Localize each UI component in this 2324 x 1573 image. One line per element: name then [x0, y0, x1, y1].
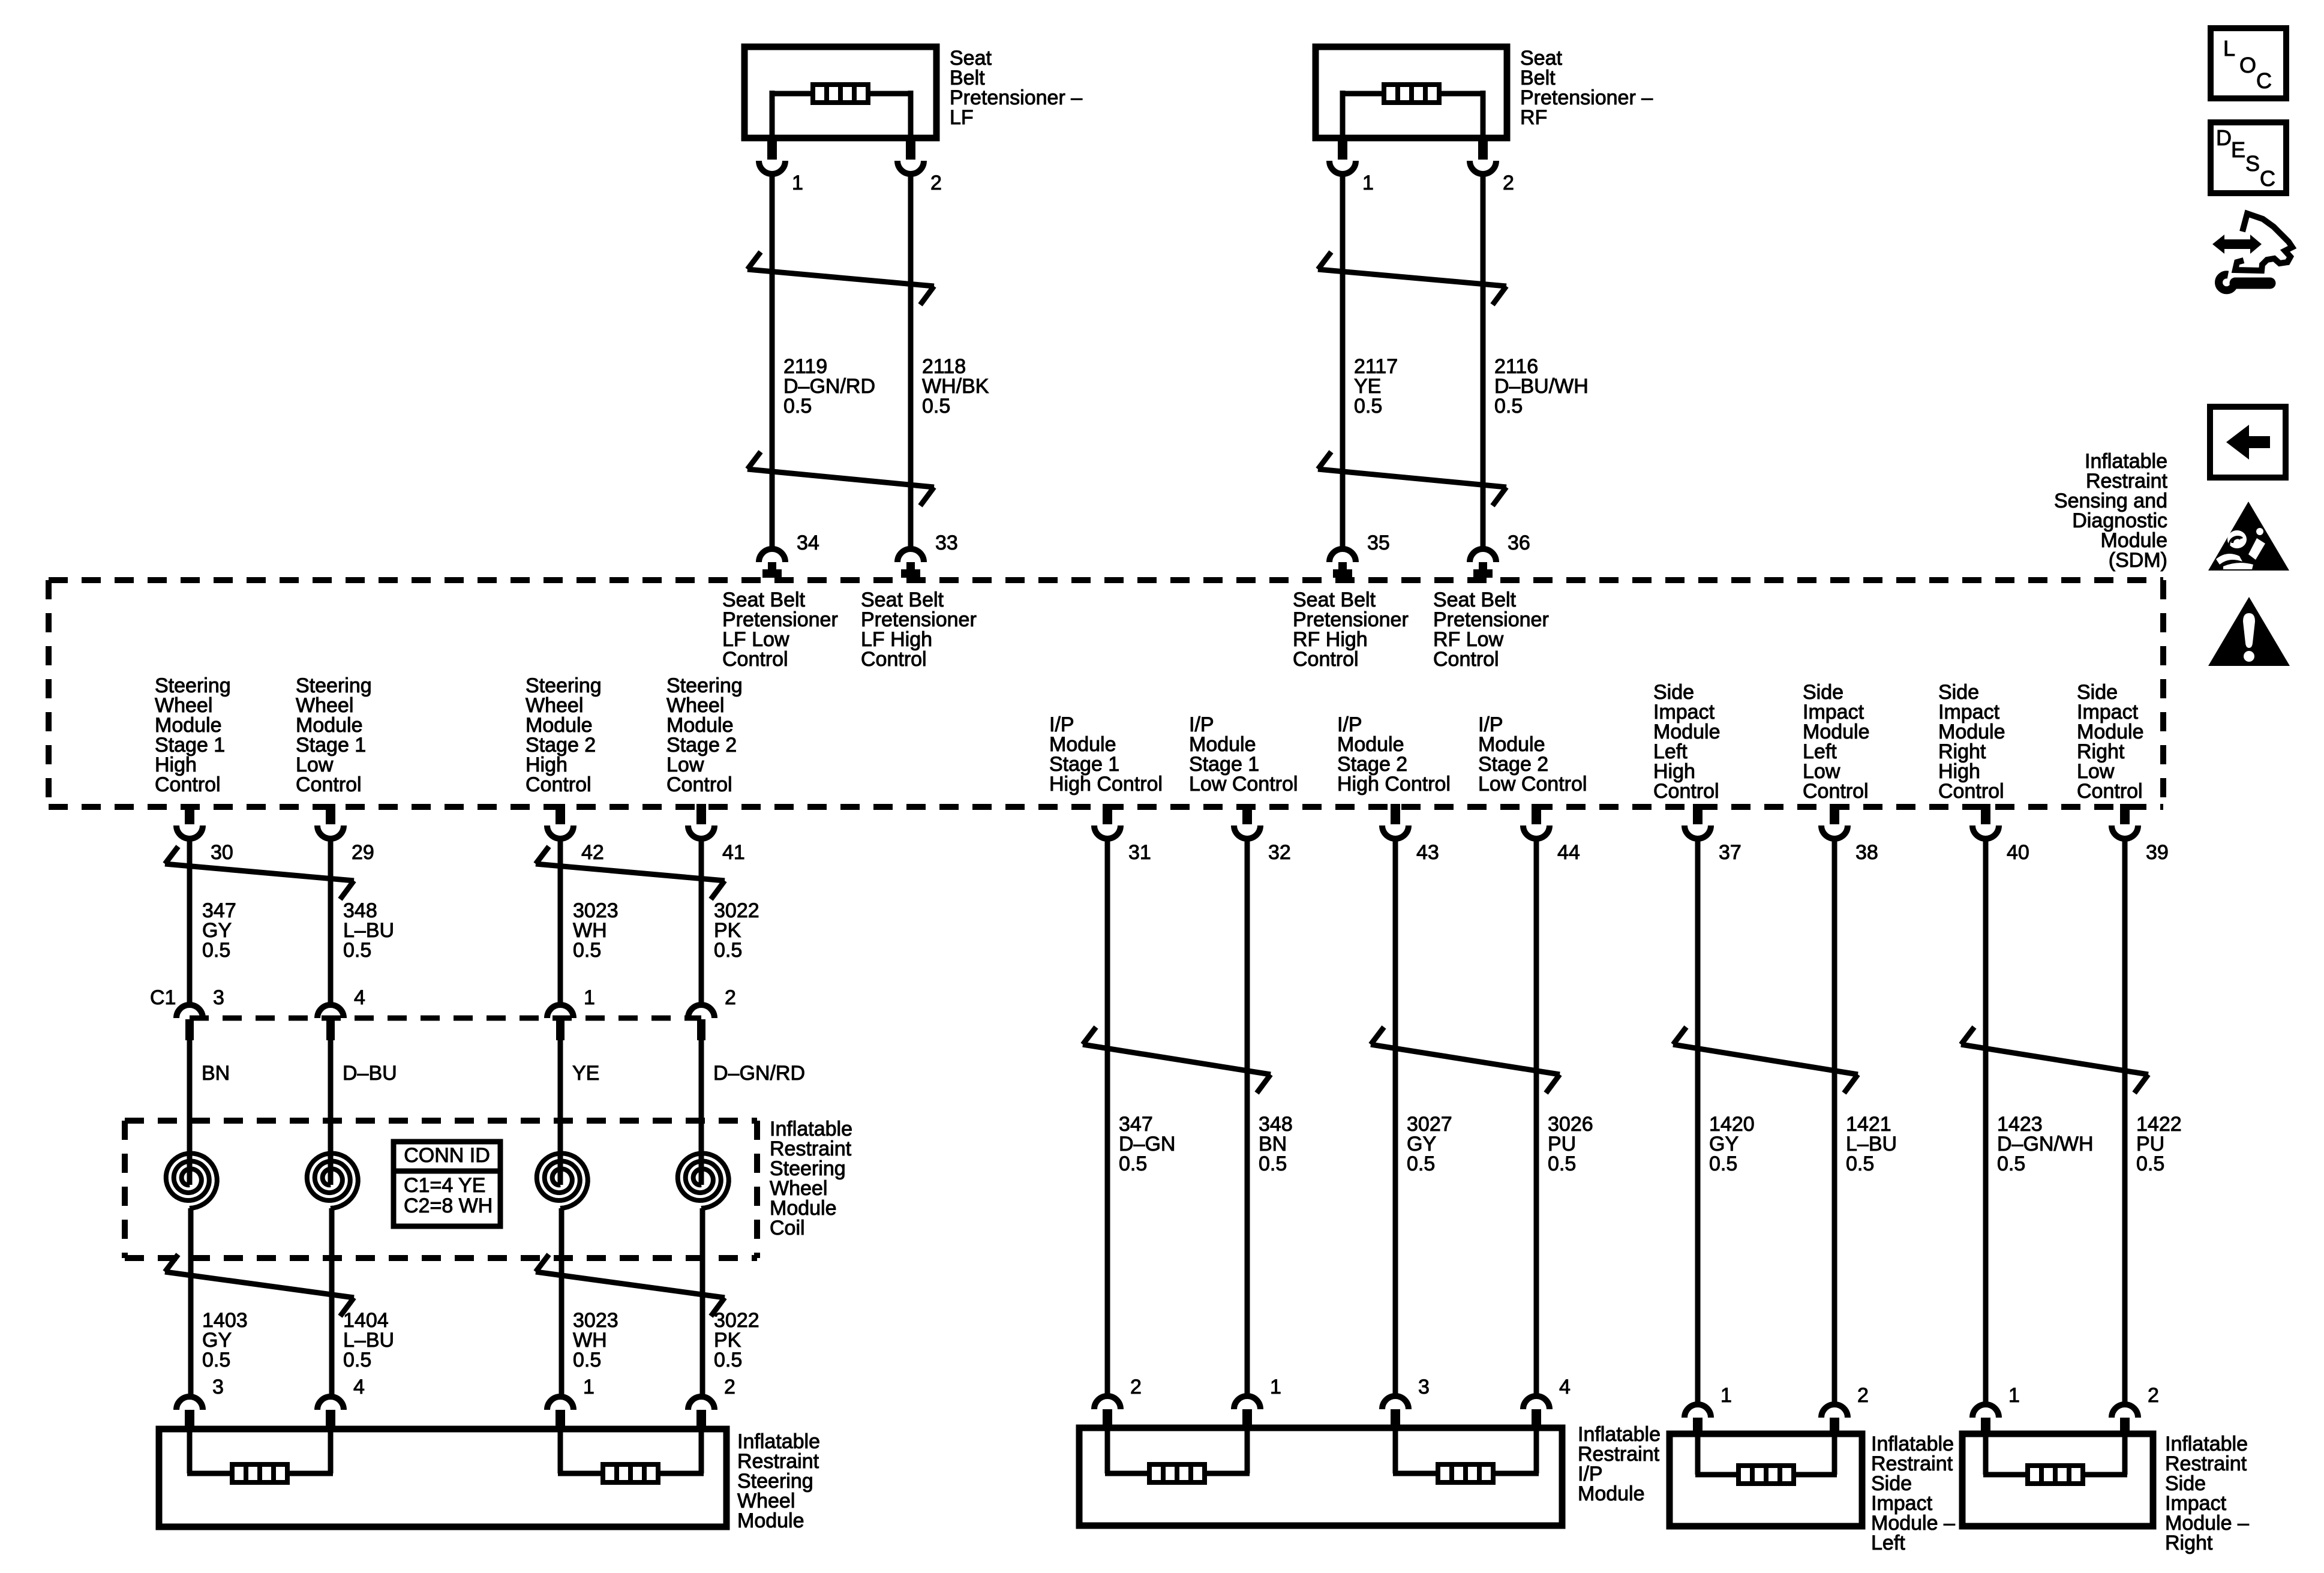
SDM pin 43 connector arc	[1382, 825, 1409, 839]
svg-text:4: 4	[1559, 1376, 1571, 1398]
svg-text:4: 4	[354, 986, 365, 1009]
SDM pin 32 connector arc	[1234, 825, 1260, 839]
I/P module pin 3 stub	[1391, 1409, 1400, 1428]
SDM pin number 44	[1557, 841, 1580, 864]
coil connector C1 pin number 3	[213, 986, 224, 1009]
wire: squib lead left (pretensioner LF)	[772, 91, 814, 138]
coil connector C1 pin number 4	[354, 986, 365, 1009]
SWM pin number 4	[353, 1376, 365, 1398]
I/P module pin 2 stub	[1103, 1409, 1112, 1428]
wire 2119 D-GN/RD	[770, 174, 775, 547]
SDM pin number 33	[935, 532, 958, 554]
Side Impact Right pin 1 stub	[1981, 1418, 1990, 1434]
wire: SWM squib2 leads	[558, 1429, 704, 1473]
svg-text:Control: Control	[666, 773, 732, 796]
svg-text:0.5: 0.5	[714, 1349, 742, 1371]
component box: Inflatable Restraint Side Impact Module - Left	[1670, 1434, 1862, 1526]
SDM net label: Seat Belt Pretensioner RF Low Control	[1433, 589, 1549, 671]
wire label D-GN/RD	[713, 1062, 805, 1085]
svg-text:0.5: 0.5	[573, 1349, 601, 1371]
icon: LOC box	[2211, 28, 2286, 98]
SDM pin 35 stub	[1333, 562, 1352, 578]
wire 2118 WH/BK	[908, 174, 914, 547]
coil connector C1 pin 2 stub	[697, 1019, 705, 1040]
wire label BN	[202, 1062, 230, 1085]
wire: I/P squib2 leads	[1393, 1428, 1539, 1473]
I/P module pin number 4	[1559, 1376, 1571, 1398]
connector arc pin 1 (pretensioner LF)	[759, 161, 785, 174]
wire 3023 WH (coil to SWM)	[559, 1258, 565, 1398]
Side Impact Right pin number 2	[2148, 1384, 2159, 1407]
I/P module pin 4 stub	[1532, 1409, 1541, 1428]
label: Seat Belt Pretensioner - RF	[1520, 47, 1653, 129]
svg-text:YE: YE	[572, 1062, 599, 1085]
wire 3026 PU (pin 44 to I/P)	[1534, 839, 1539, 1396]
wire: squib lead left (pretensioner RF)	[1343, 91, 1385, 138]
SDM pin 30 connector arc	[176, 825, 203, 839]
SDM net label: I/P Module Stage 2 Low Control	[1478, 713, 1587, 795]
harness crossing (wires 2119/2118 lower)	[747, 452, 934, 506]
I/P module pin 2 connector arc	[1094, 1396, 1121, 1409]
SDM net label: Side Impact Module Left High Control	[1653, 681, 1721, 803]
svg-text:C1: C1	[150, 986, 176, 1009]
svg-text:0.5: 0.5	[714, 939, 742, 962]
CONN ID table box	[394, 1142, 500, 1226]
coil connector C1 pin 4 arc	[317, 1005, 344, 1018]
wire: squib lead right (pretensioner RF)	[1439, 91, 1483, 138]
label: Inflatable Restraint Sensing and Diagnostic Module (SDM)	[2054, 450, 2168, 572]
svg-text:0.5: 0.5	[1997, 1152, 2025, 1175]
SDM pin 33 connector arc	[897, 549, 924, 562]
SDM pin 36 stub	[1473, 562, 1493, 578]
I/P module pin number 2	[1130, 1376, 1142, 1398]
svg-text:37: 37	[1719, 841, 1742, 864]
svg-text:L: L	[2223, 36, 2235, 61]
svg-text:0.5: 0.5	[783, 395, 812, 418]
SDM pin 43 stub	[1391, 804, 1400, 824]
coil connector C1 pin 2 arc	[688, 1005, 714, 1018]
svg-text:S: S	[2245, 151, 2260, 176]
component box: Seat Belt Pretensioner - LF	[744, 47, 936, 138]
SWM pin number 2	[724, 1376, 735, 1398]
svg-text:Control: Control	[526, 773, 591, 796]
I/P module pin 4 connector arc	[1523, 1396, 1550, 1409]
squib 2 (Steering Wheel Module)	[603, 1464, 658, 1482]
wire label 1403 GY 0.5	[202, 1309, 248, 1371]
wire label 3026 PU 0.5	[1548, 1113, 1593, 1175]
I/P module pin 1 stub	[1242, 1409, 1252, 1428]
svg-text:3: 3	[1418, 1376, 1430, 1398]
CONN ID header text	[404, 1144, 490, 1167]
SWM pin number 1	[583, 1376, 594, 1398]
wire label 2117 YE 0.5	[1354, 355, 1398, 418]
svg-text:Control: Control	[155, 773, 221, 796]
wire 2116 D-BU/WH	[1481, 174, 1486, 547]
svg-text:Control: Control	[1653, 780, 1719, 803]
wire label 3022 PK 0.5 (lower)	[714, 1309, 759, 1371]
icon: DESC box	[2211, 122, 2286, 193]
SWM pin 2 stub	[696, 1410, 706, 1429]
SDM pin 34 stub	[762, 562, 782, 578]
Side Impact Left pin number 2	[1857, 1384, 1869, 1407]
SDM pin number 42	[581, 841, 604, 864]
SDM net label: Seat Belt Pretensioner LF High Control	[861, 589, 977, 671]
wire 347 GY (pin 30 to coil C1)	[187, 839, 193, 1006]
svg-text:Right: Right	[2165, 1532, 2213, 1554]
Side Impact Right pin 2 connector arc	[2112, 1404, 2138, 1418]
svg-text:1: 1	[1721, 1384, 1732, 1407]
label: Inflatable Restraint Side Impact Module - Right	[2165, 1433, 2249, 1554]
wire 3022 PK (pin 41 to coil C1)	[699, 839, 704, 1006]
squib 1 (I/P Module)	[1149, 1464, 1205, 1482]
wire label 347 D-GN 0.5	[1119, 1113, 1175, 1175]
SDM net label: Steering Wheel Module Stage 2 High Control	[526, 674, 602, 796]
coil connector C1 pin number 2	[725, 986, 736, 1009]
SWM pin 1 connector arc	[547, 1397, 574, 1410]
label: Inflatable Restraint I/P Module	[1578, 1423, 1661, 1505]
wire: SWM squib1 leads	[187, 1429, 333, 1473]
SDM pin 32 stub	[1242, 804, 1252, 824]
svg-text:32: 32	[1268, 841, 1291, 864]
coil connector C1 pin number 1	[584, 986, 595, 1009]
svg-text:0.5: 0.5	[1709, 1152, 1737, 1175]
svg-text:C2=8 WH: C2=8 WH	[404, 1194, 493, 1217]
Side Impact Right pin 2 stub	[2120, 1418, 2130, 1434]
svg-text:Control: Control	[1433, 648, 1499, 671]
SDM pin number 29	[352, 841, 374, 864]
SDM net label: Side Impact Module Right Low Control	[2077, 681, 2144, 803]
svg-text:3: 3	[213, 986, 224, 1009]
component box: Inflatable Restraint Side Impact Module - Right	[1962, 1434, 2153, 1526]
svg-text:1: 1	[2008, 1384, 2020, 1407]
svg-text:41: 41	[722, 841, 745, 864]
svg-text:35: 35	[1367, 532, 1390, 554]
pin number 1 (pretensioner RF)	[1362, 172, 1374, 194]
svg-text:Control: Control	[722, 648, 788, 671]
SDM net label: I/P Module Stage 2 High Control	[1337, 713, 1451, 795]
SWM pin 1 stub	[556, 1410, 565, 1429]
icon: airbag warning triangle	[2208, 502, 2289, 571]
SWM pin number 3	[212, 1376, 224, 1398]
wire label 2119 D-GN/RD 0.5	[783, 355, 875, 418]
harness crossing (wires 1420/1421)	[1673, 1027, 1858, 1093]
wire 1404 L-BU (coil to SWM)	[329, 1258, 335, 1398]
SDM pin 39 stub	[2120, 804, 2130, 824]
squib 1 (Steering Wheel Module)	[232, 1464, 287, 1482]
svg-text:0.5: 0.5	[1494, 395, 1523, 418]
coil connector C1 pin 4 stub	[326, 1019, 335, 1040]
squib (Side Impact Module Right)	[2028, 1466, 2083, 1484]
harness crossing (wires 3023/3022)	[536, 846, 725, 899]
svg-text:36: 36	[1508, 532, 1530, 554]
svg-text:2: 2	[1503, 172, 1514, 194]
svg-text:1: 1	[584, 986, 595, 1009]
wire D-GN/RD (C1 to coil)	[699, 1040, 704, 1157]
svg-text:1: 1	[583, 1376, 594, 1398]
wire: Side Impact Right squib leads	[1983, 1434, 2127, 1475]
squib (Seat Belt Pretensioner LF)	[813, 85, 868, 103]
wire: Side Impact Left squib leads	[1695, 1434, 1837, 1475]
SDM pin 34 connector arc	[759, 549, 785, 562]
SWM pin 2 connector arc	[688, 1397, 714, 1410]
svg-text:43: 43	[1416, 841, 1439, 864]
svg-text:Left: Left	[1871, 1532, 1905, 1554]
svg-text:0.5: 0.5	[202, 1349, 230, 1371]
coil spiral 1 (clockspring)	[166, 1154, 217, 1259]
svg-text:E: E	[2231, 137, 2245, 162]
connector arc pin 1 (pretensioner RF)	[1329, 161, 1356, 174]
svg-text:0.5: 0.5	[202, 939, 230, 962]
label: Seat Belt Pretensioner - LF	[950, 47, 1082, 129]
svg-text:44: 44	[1557, 841, 1580, 864]
SDM net label: Seat Belt Pretensioner LF Low Control	[722, 589, 838, 671]
svg-text:D–GN/RD: D–GN/RD	[713, 1062, 805, 1085]
svg-text:Control: Control	[2077, 780, 2143, 803]
SDM pin 40 stub	[1981, 804, 1990, 824]
wire label D-BU	[343, 1062, 397, 1085]
SDM pin number 43	[1416, 841, 1439, 864]
svg-text:Coil: Coil	[770, 1217, 805, 1239]
svg-text:0.5: 0.5	[1354, 395, 1382, 418]
svg-text:3: 3	[212, 1376, 224, 1398]
SDM pin 37 stub	[1693, 804, 1703, 824]
wire label 347 GY 0.5	[202, 899, 236, 962]
svg-text:C1=4 YE: C1=4 YE	[404, 1174, 485, 1197]
Side Impact Left pin 1 connector arc	[1685, 1404, 1711, 1418]
SWM pin 3 connector arc	[176, 1397, 203, 1410]
icon: caution triangle	[2208, 597, 2290, 666]
svg-text:Control: Control	[1293, 648, 1359, 671]
squib 2 (I/P Module)	[1438, 1464, 1493, 1482]
svg-text:1: 1	[1362, 172, 1374, 194]
wire 347 D-GN (pin 31 to I/P)	[1105, 839, 1110, 1396]
wire 1420 GY (pin 37)	[1695, 839, 1701, 1404]
SDM pin 33 stub	[901, 562, 920, 578]
wire label 1422 PU 0.5	[2136, 1113, 2182, 1175]
squib (Side Impact Module Left)	[1739, 1466, 1794, 1484]
SWM pin 3 stub	[185, 1410, 194, 1429]
SDM pin number 40	[2007, 841, 2029, 864]
svg-text:31: 31	[1128, 841, 1151, 864]
svg-text:2: 2	[725, 986, 736, 1009]
CONN ID row C2=8 WH	[404, 1194, 493, 1217]
svg-text:Low Control: Low Control	[1478, 773, 1587, 795]
svg-text:4: 4	[353, 1376, 365, 1398]
Side Impact Left pin number 1	[1721, 1384, 1732, 1407]
wire 1403 GY (coil to SWM)	[188, 1258, 194, 1398]
SDM pin number 30	[211, 841, 233, 864]
wire label 1423 D-GN/WH 0.5	[1997, 1113, 2094, 1175]
Side Impact Left pin 2 stub	[1830, 1418, 1839, 1434]
wire 3022 PK (coil to SWM)	[700, 1258, 705, 1398]
svg-text:C: C	[2260, 166, 2275, 191]
I/P module pin 3 connector arc	[1382, 1396, 1409, 1409]
svg-text:2: 2	[2148, 1384, 2159, 1407]
SDM pin 39 connector arc	[2112, 825, 2138, 839]
wire label 3023 WH 0.5	[573, 899, 618, 962]
icon: left arrow box	[2210, 407, 2286, 478]
SDM pin 29 stub	[326, 804, 335, 824]
svg-text:0.5: 0.5	[2136, 1152, 2164, 1175]
svg-text:RF: RF	[1520, 106, 1547, 129]
svg-text:0.5: 0.5	[573, 939, 601, 962]
SDM pin number 32	[1268, 841, 1291, 864]
svg-text:29: 29	[352, 841, 374, 864]
harness crossing (wires 347/348)	[165, 846, 354, 899]
component box: Seat Belt Pretensioner - RF	[1316, 47, 1507, 138]
wire 3027 GY (pin 43 to I/P)	[1393, 839, 1398, 1396]
SDM pin number 31	[1128, 841, 1151, 864]
SDM pin 31 connector arc	[1094, 825, 1121, 839]
connector C1 label	[150, 986, 176, 1009]
svg-text:0.5: 0.5	[1407, 1152, 1435, 1175]
label: Inflatable Restraint Steering Wheel Module Coil	[770, 1118, 852, 1239]
wire 348 BN (pin 32 to I/P)	[1245, 839, 1250, 1396]
wire label 3023 WH 0.5 (lower)	[573, 1309, 618, 1371]
svg-text:38: 38	[1855, 841, 1878, 864]
SDM pin number 41	[722, 841, 745, 864]
Side Impact Left pin 2 connector arc	[1821, 1404, 1848, 1418]
wire 1421 L-BU (pin 38)	[1832, 839, 1837, 1404]
svg-text:0.5: 0.5	[1548, 1152, 1576, 1175]
harness crossing (wires 3023/3022 lower)	[536, 1254, 725, 1316]
wire: squib lead right (pretensioner LF)	[868, 91, 911, 138]
wire 1423 D-GN/WH (pin 40)	[1983, 839, 1989, 1404]
wire D-BU (C1 to coil)	[328, 1040, 334, 1157]
svg-text:0.5: 0.5	[922, 395, 950, 418]
harness crossing (wires 347/348 I/P)	[1083, 1027, 1271, 1093]
SDM pin 31 stub	[1103, 804, 1112, 824]
SDM pin 37 connector arc	[1685, 825, 1711, 839]
SDM pin 38 stub	[1830, 804, 1839, 824]
coil connector C1 pin 1 arc	[547, 1005, 574, 1018]
harness crossing (wires 1423/1422)	[1961, 1027, 2148, 1093]
svg-text:40: 40	[2007, 841, 2029, 864]
Side Impact Right pin number 1	[2008, 1384, 2020, 1407]
svg-text:33: 33	[935, 532, 958, 554]
pin stub 2 (pretensioner RF)	[1478, 135, 1488, 160]
harness crossing (wires 2117/2116 upper)	[1318, 252, 1506, 305]
wire 1422 PU (pin 39)	[2122, 839, 2128, 1404]
svg-text:34: 34	[797, 532, 819, 554]
svg-text:Control: Control	[1803, 780, 1869, 803]
icon: connector service symbol (arrow, connector outline, wrench)	[2212, 214, 2292, 290]
svg-text:(SDM): (SDM)	[2109, 549, 2167, 572]
SDM pin 42 connector arc	[547, 825, 574, 839]
SWM pin 4 connector arc	[317, 1397, 344, 1410]
SDM pin number 36	[1508, 532, 1530, 554]
wire YE (C1 to coil)	[558, 1040, 563, 1157]
component box: Inflatable Restraint I/P Module	[1079, 1428, 1562, 1526]
SDM pin number 34	[797, 532, 819, 554]
Side Impact Left pin 1 stub	[1693, 1418, 1703, 1434]
SDM net label: Seat Belt Pretensioner RF High Control	[1293, 589, 1409, 671]
harness crossing (wires 1403/1404)	[165, 1254, 354, 1316]
svg-text:Module: Module	[1578, 1482, 1645, 1505]
svg-text:Control: Control	[296, 773, 362, 796]
wire label 3027 GY 0.5	[1407, 1113, 1452, 1175]
wire BN (C1 to coil)	[187, 1040, 193, 1157]
wire label 3022 PK 0.5	[714, 899, 759, 962]
svg-text:0.5: 0.5	[343, 939, 371, 962]
coil spiral 2 (clockspring)	[307, 1154, 358, 1259]
label: Inflatable Restraint Side Impact Module - Left	[1871, 1433, 1955, 1554]
wire 3023 WH (pin 42 to coil C1)	[558, 839, 563, 1006]
wire label YE	[572, 1062, 599, 1085]
connector arc pin 2 (pretensioner LF)	[897, 161, 924, 174]
connector C1 dotted line	[190, 1016, 701, 1021]
wire 2117 YE	[1340, 174, 1346, 547]
svg-text:42: 42	[581, 841, 604, 864]
SDM pin 42 stub	[556, 804, 565, 824]
SDM net label: Side Impact Module Right High Control	[1938, 681, 2005, 803]
svg-text:0.5: 0.5	[343, 1349, 371, 1371]
SDM pin number 38	[1855, 841, 1878, 864]
svg-text:1: 1	[1270, 1376, 1281, 1398]
coil connector C1 pin 3 arc	[176, 1005, 203, 1018]
wire label 348 BN 0.5	[1259, 1113, 1293, 1175]
SWM pin 4 stub	[326, 1410, 335, 1429]
svg-text:C: C	[2256, 68, 2272, 93]
svg-text:2: 2	[1130, 1376, 1142, 1398]
SDM pin 30 stub	[185, 804, 194, 824]
I/P module pin number 3	[1418, 1376, 1430, 1398]
wire label 1421 L-BU 0.5	[1846, 1113, 1897, 1175]
SDM net label: I/P Module Stage 1 High Control	[1049, 713, 1163, 795]
svg-text:39: 39	[2146, 841, 2169, 864]
svg-text:0.5: 0.5	[1119, 1152, 1147, 1175]
SDM pin 41 stub	[696, 804, 706, 824]
svg-text:0.5: 0.5	[1259, 1152, 1287, 1175]
svg-text:2: 2	[930, 172, 942, 194]
svg-text:Low Control: Low Control	[1189, 773, 1298, 795]
svg-text:Control: Control	[1938, 780, 2004, 803]
svg-text:1: 1	[792, 172, 803, 194]
svg-text:BN: BN	[202, 1062, 230, 1085]
SDM pin 38 connector arc	[1821, 825, 1848, 839]
svg-text:2: 2	[1857, 1384, 1869, 1407]
connector arc pin 2 (pretensioner RF)	[1470, 161, 1496, 174]
SDM pin 35 connector arc	[1329, 549, 1356, 562]
SDM net label: Steering Wheel Module Stage 1 Low Control	[296, 674, 372, 796]
SDM pin 41 connector arc	[688, 825, 714, 839]
SDM net label: Side Impact Module Left Low Control	[1803, 681, 1870, 803]
wire: I/P squib1 leads	[1105, 1428, 1250, 1473]
pin stub 2 (pretensioner LF)	[906, 135, 915, 160]
pin stub 1 (pretensioner RF)	[1338, 135, 1347, 160]
svg-text:Module: Module	[737, 1509, 804, 1532]
coil connector C1 pin 1 stub	[556, 1019, 565, 1040]
SDM pin 36 connector arc	[1470, 549, 1496, 562]
SDM pin number 35	[1367, 532, 1390, 554]
wire 348 L-BU (pin 29 to coil C1)	[328, 839, 334, 1006]
SDM pin 44 stub	[1532, 804, 1541, 824]
svg-text:D: D	[2216, 125, 2232, 150]
pin number 1 (pretensioner LF)	[792, 172, 803, 194]
coil spiral 4 (clockspring)	[678, 1154, 729, 1259]
SDM dashed box (Inflatable Restraint Sensing and Diagnostic Module)	[49, 580, 2163, 807]
wire label 348 L-BU 0.5	[343, 899, 394, 962]
harness crossing (wires 2119/2118 upper)	[747, 252, 934, 305]
SDM pin 29 connector arc	[317, 825, 344, 839]
SDM net label: Steering Wheel Module Stage 1 High Control	[155, 674, 231, 796]
pin stub 1 (pretensioner LF)	[767, 135, 777, 160]
svg-text:O: O	[2239, 53, 2256, 77]
Side Impact Right pin 1 connector arc	[1972, 1404, 1999, 1418]
SDM pin number 39	[2146, 841, 2169, 864]
coil spiral 3 (clockspring)	[537, 1154, 588, 1259]
SDM pin number 37	[1719, 841, 1742, 864]
